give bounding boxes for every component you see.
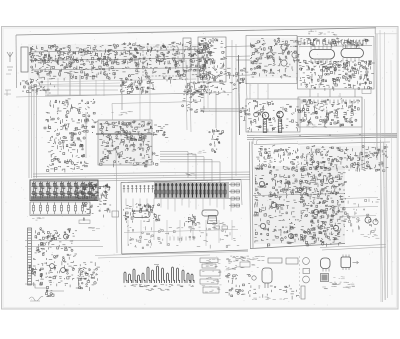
switch bank rail wire upper (31, 186, 97, 188)
horizontal bundle wire 3 (33, 177, 250, 179)
terminal boxes below (214, 226, 220, 229)
audio block label text (306, 125, 342, 128)
transistor Q207 (video out) (277, 111, 284, 118)
transistor Q103 (61, 268, 66, 273)
legend symbol circle C (303, 276, 310, 283)
transistor Q504 (298, 188, 303, 193)
deflection block top border (254, 144, 298, 145)
wire divider across deflection block (253, 194, 345, 196)
vertical output sparse components (347, 196, 380, 234)
horizontal bus wire 3 (247, 137, 397, 139)
vertical deflection components (300, 172, 341, 246)
transistor Q510 (373, 219, 378, 224)
lower jungle area sparse components (127, 226, 239, 249)
horizontal oscillator components (upper band) (256, 145, 299, 169)
right margin border line 2 (380, 30, 381, 302)
package drawing TO-92 leads (323, 269, 329, 272)
preset tuning potentiometers VR1-VR8 (32, 203, 83, 215)
tick mark 3 on deflection bus (177, 237, 179, 241)
flyback transformer hatch (209, 218, 217, 221)
chroma processing components (123, 204, 160, 223)
jungle block label text (186, 174, 197, 176)
right margin border line 1 (376, 28, 378, 160)
sync block haze (98, 120, 152, 165)
notes line 1 (330, 282, 355, 285)
transistor Q102 (50, 264, 55, 269)
sync separator block outline (98, 120, 152, 165)
vertical wires through lower jungle (128, 220, 232, 246)
sound demodulator components (250, 38, 301, 81)
wire rail above ICs (299, 46, 372, 47)
wire across vertical output area 1 (340, 198, 378, 199)
video output stage components (248, 100, 301, 132)
electrolytic capacitor C220 hatch (264, 122, 267, 132)
stepped bus wire 2 (160, 154, 196, 179)
horizontal deflection components lower (254, 196, 347, 247)
legend box 3 text (202, 271, 221, 273)
edge connector P101 with pins (28, 228, 32, 285)
jungle block outline top/left (121, 180, 241, 255)
coil bank dark haze (154, 182, 229, 199)
long vertical wire sound takeoff (235, 44, 237, 176)
vertical feeder wire 1 (28, 84, 30, 178)
components below sync block (144, 150, 158, 167)
transistor Q204 (292, 52, 298, 58)
hand-written check squiggle (29, 296, 43, 301)
bottom-right nested corner lines (320, 245, 386, 251)
sync separator components lower (100, 138, 153, 167)
wire IC block down 1 (309, 89, 311, 97)
transistor Q505 (313, 209, 318, 214)
legend box 1 text (206, 259, 220, 261)
pushbutton switch contacts S1-S9 (32, 182, 93, 199)
vertical wires center (186, 60, 191, 132)
capacitor tick row C301-C322 (301, 40, 366, 45)
audio output block outline (298, 97, 362, 127)
wire AGC down (121, 80, 123, 110)
IC U301 (sound IF amplifier) (310, 50, 335, 60)
flyback transformer T401 (trapezoid) (208, 216, 218, 224)
components right of sync block (152, 125, 168, 138)
legend text row b (206, 276, 221, 279)
legend separator dashed (299, 256, 301, 300)
legend symbol square B (303, 269, 310, 274)
tick mark 2 on deflection bus (173, 237, 175, 241)
IF transformer dashed shield (143, 47, 178, 76)
switch bank haze (30, 180, 98, 201)
legend box 5 text (205, 289, 220, 293)
video bus wire 3 (200, 111, 246, 113)
horizontal bundle wire 4 (33, 180, 250, 182)
horizontal bundle wire 2 (33, 175, 250, 177)
legend box 4 (200, 279, 218, 284)
waveform chart title text (146, 289, 170, 291)
video amp interface components (182, 89, 206, 113)
bold sound takeoff vertical wire (239, 55, 240, 135)
ground reference marks (46, 290, 55, 297)
bus junction nodes (300, 135, 360, 136)
left interface components (dark bits) (95, 184, 110, 202)
balun marks (4, 74, 11, 96)
electrolytic capacitor C220 (263, 120, 266, 133)
package drawing DIP top (341, 257, 351, 268)
jungle block outline right (241, 180, 242, 206)
wires dropping from demodulator to video block (250, 84, 268, 99)
transistor Q202 (281, 44, 287, 50)
switch bank right-hand contact components (75, 182, 99, 200)
transistor Q205 (driver) (254, 112, 259, 117)
legend box 1 (200, 258, 218, 263)
switch bank caption text (32, 218, 44, 220)
package arrow (353, 261, 359, 264)
stepped bus wire 3 (160, 157, 204, 181)
tick mark 4 on deflection bus (181, 237, 183, 241)
power supply rectifier/regulator components (301, 145, 389, 172)
horizontal deflection components upper (254, 166, 346, 199)
delay line DL401 (133, 211, 150, 218)
audio output stage components (300, 98, 359, 127)
vertical feeder wire 4 (36, 84, 38, 178)
package drawing TO-92 top (321, 258, 331, 269)
tick mark 6 on deflection bus (189, 237, 191, 241)
wire volume bus (25, 240, 100, 242)
noise gate stage components (47, 136, 89, 173)
right margin border line 4 (391, 60, 392, 295)
IC U301 pin leads (311, 46, 331, 64)
legend box 2 text (206, 266, 218, 267)
wire volume bus 2 (25, 246, 103, 248)
switch bank rail wire lower (31, 193, 97, 195)
long vertical wire B+ feed (231, 40, 233, 180)
IF signal path wire 3 (32, 68, 205, 71)
legend box 2 (202, 264, 216, 268)
block bottom staircase outline (25, 284, 64, 291)
legend transistor leads (265, 272, 269, 289)
antenna input symbol (7, 52, 13, 70)
transistor Q506 (329, 179, 334, 184)
sound demodulator haze (250, 38, 300, 78)
wire across lower jungle (124, 230, 238, 233)
audio amplifier components (28, 262, 100, 283)
horizontal bus wire 1 (247, 133, 397, 135)
vertical component chain (video line) (209, 129, 224, 153)
sync separator components upper (99, 121, 153, 143)
label text (volume) (88, 227, 100, 230)
IC U302 pin leads (343, 44, 359, 61)
sound IF block border (298, 37, 375, 90)
transistor Q206 (video out) (262, 112, 269, 119)
pin header tick row on audio block (302, 100, 358, 104)
long vertical wires from IF strip (48, 78, 150, 120)
IF signal path wire 2 (30, 58, 208, 61)
channel selector switch bank outline (30, 180, 98, 201)
video bus wire 1 (200, 108, 246, 110)
tick mark 1 on deflection bus (169, 237, 171, 241)
sync block caption text (127, 162, 141, 166)
wire into sound demodulator (236, 59, 250, 61)
transistor Q203 (281, 60, 287, 66)
nested border around jungle bottom (95, 252, 248, 259)
right margin border line 3 (385, 32, 386, 300)
wire bundle top-right corner down (318, 93, 340, 97)
wire bus under IF strip (30, 85, 120, 87)
transistor Q201 (267, 52, 273, 58)
IF strip haze (28, 44, 210, 80)
video detector components (185, 82, 211, 96)
AGC network components (120, 80, 155, 95)
legend symbol column (225, 274, 251, 298)
wire B to C upper (226, 45, 250, 48)
legend small circle symbol (252, 276, 256, 280)
coil/peaking bank L401-L418 (dark row) (155, 183, 226, 198)
wire IC block down 3 (354, 89, 356, 97)
keying pulse stage components (44, 99, 98, 136)
notes line 2 (322, 286, 355, 289)
pin number text row (308, 30, 337, 35)
ceramic filter box (183, 38, 191, 71)
legend part-number box 2 (286, 258, 298, 264)
transistor Q508 (289, 234, 294, 239)
deflection block left border (250, 142, 254, 249)
sound demodulator block outline (246, 36, 297, 84)
legend box mid (240, 262, 250, 267)
notes text block (226, 256, 265, 262)
decoupling capacitors row above ICs (300, 38, 369, 48)
AFT discriminator components (199, 38, 227, 82)
package note text (333, 276, 344, 279)
sound IF block border outer (376, 34, 378, 160)
tick mark 5 on deflection bus (185, 237, 187, 241)
volume/tone control components (35, 228, 77, 250)
horizontal bus wire 2 (247, 135, 397, 137)
wire B to C mid (226, 55, 250, 58)
long horizontal tie wires upper (36, 79, 196, 85)
notes text block 2 (225, 263, 259, 270)
section divider under IF strip (16, 93, 232, 98)
wire across vertical output area 2 (340, 207, 378, 208)
right border rail 2 (364, 99, 366, 170)
bus label text (187, 150, 206, 155)
small module box (112, 211, 119, 217)
wire bus under IF strip 2 (33, 89, 118, 91)
transistor Q101 (64, 234, 69, 239)
wire across vertical output area 3 (340, 216, 376, 217)
schematic sheet border left (15, 35, 18, 88)
stepped bus wire 4 (160, 159, 212, 181)
IF amplifier components row 1 (120, 42, 213, 66)
note mark above waveforms (154, 264, 159, 266)
ladder of damping resistors R421-R428 (229, 183, 240, 207)
small box below switch bank (79, 220, 90, 224)
transistor Q502 (271, 202, 276, 207)
legend tall rect D (301, 286, 305, 299)
deflection block haze (254, 166, 345, 244)
flyback label text (209, 221, 226, 225)
wire IC block down 2 (329, 89, 331, 97)
schematic sheet border top (16, 28, 376, 35)
vertical feeder wire 3 (33, 84, 35, 178)
legend text row c (202, 285, 222, 287)
electrolytic capacitor C221 hatch (279, 121, 282, 131)
dark package square (322, 275, 328, 281)
stepped bus wire 5 (160, 162, 220, 183)
RF/IF stage components row 1 (R/C/L network) (29, 44, 118, 65)
package drawing DIP pins (343, 255, 349, 271)
vertical feeder wire 2 (31, 84, 33, 178)
wires from AFT block down (204, 82, 208, 110)
legend transistor package outline (262, 268, 272, 283)
power supply block top edge (298, 142, 390, 144)
transistor Q501 (259, 181, 264, 186)
electrolytic capacitor C221 (278, 119, 281, 133)
switch bank dark lower band (31, 196, 97, 200)
AFT discriminator block outline (198, 37, 226, 82)
pot bank bottom rail (31, 213, 89, 215)
wires descending from coil bank (126, 199, 231, 212)
mid-left block edge (85, 112, 87, 158)
legend symbol circle A (303, 258, 310, 265)
tuning resistor bank outline (30, 202, 90, 216)
overlay page corner top-right (375, 27, 398, 34)
burst gate components (185, 214, 201, 226)
wire horizontal mid-left (45, 94, 100, 96)
left interface lower components (97, 200, 111, 217)
transistor Q503 (260, 223, 265, 228)
scan speckle (6, 30, 394, 305)
tuner shield box (21, 47, 28, 72)
right border rail (361, 97, 363, 170)
video output block outline (246, 99, 300, 132)
IF signal path wire 1 (30, 50, 208, 53)
tick mark 7 on deflection bus (193, 237, 195, 241)
video bus wire 2 (200, 109, 246, 111)
legend part-number box 1 (268, 258, 282, 263)
AGC filter components below tuner (21, 78, 55, 95)
legend caption text (252, 297, 288, 300)
horizontal bundle wire 1 (33, 172, 250, 174)
RF/IF stage components row 2 (transistor bias network) (31, 58, 119, 81)
stepped bus wire 1 (160, 152, 188, 179)
oscilloscope waveform chart (14 test-point traces) (124, 266, 194, 283)
power supply haze (300, 146, 387, 170)
components directly below ICs (302, 60, 371, 71)
ceramic filter CF401 (202, 210, 218, 216)
IC U302 (FM detector) (341, 48, 363, 57)
vertical wire video feed (215, 93, 217, 128)
sound IF block lower components (299, 60, 375, 91)
transistor Q507 (333, 225, 338, 230)
jungle block outline bottom (122, 250, 248, 254)
audio preamp components (33, 248, 77, 265)
IF amplifier components row 2 (119, 58, 211, 84)
dark wire across sync block (96, 133, 152, 135)
block label text bottom-right (361, 234, 380, 238)
transistor Q509 (365, 217, 371, 223)
long vertical wire left of jungle (116, 150, 117, 253)
wire B to C lower (226, 74, 250, 77)
wire from top blocks down right (246, 78, 247, 99)
bus elbow into deflection block (253, 134, 397, 144)
video section boundary line (112, 102, 200, 121)
dark package square outline (321, 274, 329, 282)
deflection block bottom border (250, 244, 345, 249)
mid sheet divider wires (45, 93, 200, 96)
band switch components (82, 202, 93, 221)
legend box 3 (200, 270, 220, 276)
components left of video block (240, 106, 248, 120)
wire from IF strip down (79, 75, 81, 96)
right page border rails (381, 140, 388, 302)
legend box 4 text (207, 280, 220, 283)
components between AFT and demodulator (227, 68, 248, 84)
wire from IF strip down (69, 75, 71, 96)
legend box 5 (203, 287, 219, 293)
waveform caption text row (124, 285, 194, 287)
AFT output components (210, 83, 237, 95)
legend lower symbols (251, 285, 299, 300)
capacitor row C401-C408 (123, 185, 154, 192)
legend text row a (204, 262, 220, 265)
block label text (sync separator) (112, 112, 133, 115)
connector J301 (362, 89, 371, 94)
speaker output components (34, 281, 96, 292)
